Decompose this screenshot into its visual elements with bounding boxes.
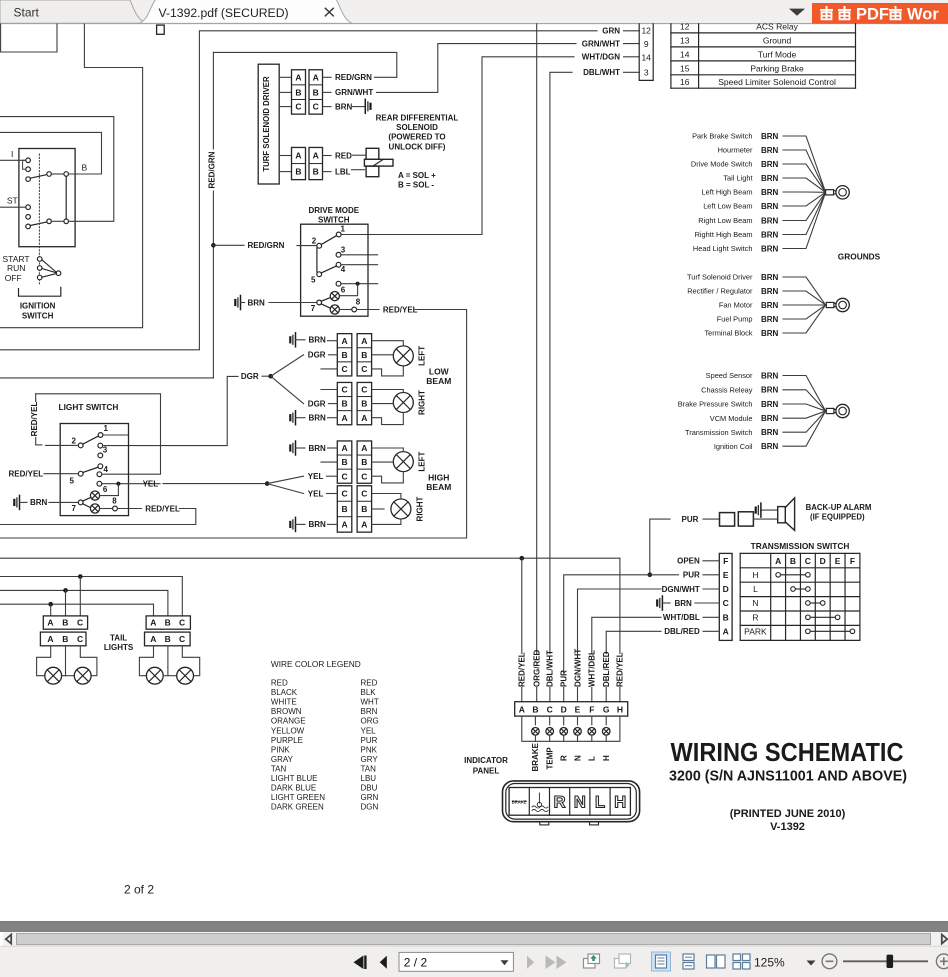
svg-text:Hourmeter: Hourmeter [718, 146, 753, 155]
svg-text:12: 12 [680, 22, 690, 32]
svg-text:RED/YEL: RED/YEL [9, 470, 44, 479]
svg-text:4: 4 [341, 265, 346, 274]
Foxit orange banner with CJK ad text [812, 3, 948, 24]
svg-text:PANEL: PANEL [473, 766, 500, 775]
svg-text:PNK: PNK [361, 745, 378, 754]
svg-text:BRN: BRN [761, 315, 779, 324]
svg-text:RED/GRN: RED/GRN [335, 73, 372, 82]
svg-text:Left Low Beam: Left Low Beam [703, 202, 752, 211]
svg-text:C: C [341, 471, 347, 481]
svg-text:SWITCH: SWITCH [318, 216, 350, 225]
svg-text:YEL: YEL [308, 489, 324, 498]
svg-text:BRN: BRN [761, 230, 779, 239]
wire PUR branch up to back-up alarm [650, 519, 670, 575]
svg-text:Turf Mode: Turf Mode [758, 50, 797, 60]
svg-text:Tail Light: Tail Light [723, 174, 752, 183]
svg-text:F: F [723, 556, 728, 566]
svg-text:DGR: DGR [308, 351, 326, 360]
svg-text:LEFT: LEFT [418, 451, 427, 471]
svg-text:N: N [574, 794, 586, 812]
lamp indicator E [574, 728, 582, 736]
toolbar next page button (disabled) [527, 956, 534, 969]
svg-text:15: 15 [680, 63, 690, 73]
lamp tail 1 [45, 667, 62, 684]
svg-text:Ground: Ground [763, 36, 792, 46]
wire YEL from pin 6 with junction [102, 483, 160, 485]
lamp indicator B [532, 728, 540, 736]
lamp tail 4 [177, 667, 194, 684]
label DBL/WHT riser [546, 654, 554, 687]
svg-text:GRY: GRY [361, 755, 379, 764]
svg-text:LEFT: LEFT [418, 346, 427, 366]
label DGN/WHT riser [573, 654, 581, 687]
tab bar background [0, 0, 948, 24]
lamp indicator C [546, 728, 554, 736]
indicator panel connector A-H [515, 702, 628, 716]
svg-text:WHITE: WHITE [271, 698, 297, 707]
svg-text:GRN: GRN [602, 27, 620, 36]
connector left low beam pair [337, 334, 352, 376]
wire stubs driver to connector rows A B C [279, 76, 291, 78]
svg-text:RED: RED [271, 679, 288, 688]
svg-text:A: A [341, 443, 347, 453]
svg-text:DARK GREEN: DARK GREEN [271, 803, 324, 812]
svg-text:RED/GRN: RED/GRN [248, 241, 285, 250]
label RED/YEL riser [616, 654, 624, 687]
svg-text:C: C [361, 385, 367, 395]
svg-text:PINK: PINK [271, 745, 290, 754]
svg-text:YEL: YEL [361, 726, 377, 735]
svg-text:2: 2 [312, 237, 317, 246]
svg-text:PDF: PDF [856, 5, 889, 23]
svg-text:B: B [295, 167, 301, 177]
svg-text:GRN/WHT: GRN/WHT [335, 88, 373, 97]
lamp in light switch (top) [90, 491, 99, 500]
wire RED/YEL from pin 8 down to left edge [357, 309, 379, 311]
svg-text:H: H [752, 570, 758, 580]
svg-text:B: B [361, 504, 367, 514]
svg-text:TEMP: TEMP [546, 747, 555, 770]
svg-text:DGN/WHT: DGN/WHT [662, 585, 700, 594]
svg-text:WHT: WHT [361, 698, 379, 707]
label ORG/RED riser [533, 654, 541, 687]
svg-text:ORG: ORG [361, 717, 379, 726]
svg-text:B: B [361, 399, 367, 409]
svg-text:Ignition Coil: Ignition Coil [714, 442, 753, 451]
wire BRN ground right-high A [295, 517, 297, 531]
svg-text:B: B [532, 704, 538, 714]
svg-text:DGN: DGN [361, 803, 379, 812]
svg-text:Start: Start [14, 6, 40, 20]
svg-text:3: 3 [644, 67, 649, 77]
svg-text:L: L [595, 794, 605, 812]
svg-text:A: A [361, 443, 367, 453]
svg-text:B: B [165, 618, 171, 628]
wire ST row to left edge [0, 117, 114, 222]
svg-text:PUR: PUR [361, 736, 378, 745]
wire lever bus [51, 173, 64, 175]
label DBL/RED riser [602, 654, 610, 687]
VCM connector table [670, 24, 672, 88]
svg-text:BRN: BRN [761, 371, 779, 380]
svg-text:IGNITION: IGNITION [20, 301, 56, 310]
wire BRN into pin 7 [240, 296, 242, 310]
svg-text:LOW: LOW [429, 367, 450, 377]
svg-text:C: C [295, 102, 301, 112]
svg-text:9: 9 [644, 39, 649, 49]
svg-text:D: D [723, 584, 729, 594]
connector tail light right pair [146, 616, 190, 629]
svg-text:Fuel Pump: Fuel Pump [717, 315, 753, 324]
svg-text:INDICATOR: INDICATOR [464, 756, 508, 765]
svg-text:A: A [150, 618, 156, 628]
svg-text:TRANSMISSION SWITCH: TRANSMISSION SWITCH [751, 541, 850, 551]
wire stub pin 6 with junction [341, 283, 378, 285]
svg-text:BRN: BRN [761, 386, 779, 395]
wire stub left-low C [321, 368, 337, 370]
toolbar continuous layout button [683, 954, 694, 961]
svg-text:A: A [47, 634, 53, 644]
svg-text:BRN: BRN [248, 298, 266, 307]
svg-text:LIGHTS: LIGHTS [104, 643, 134, 652]
wire riser pin A indicator connector [521, 558, 523, 702]
svg-text:G: G [603, 704, 610, 714]
svg-text:BRN: BRN [761, 400, 779, 409]
indicator panel feet [540, 822, 549, 825]
wire GRN/WHT B row to pin 9 [323, 91, 332, 93]
svg-text:DBU: DBU [361, 784, 378, 793]
svg-text:BRN: BRN [309, 520, 327, 529]
svg-text:125%: 125% [754, 955, 785, 969]
svg-text:12: 12 [641, 26, 651, 36]
lamp 2 in drive mode switch [330, 305, 339, 314]
rear differential solenoid L1 symbol [366, 148, 379, 159]
label RED/YEL riser [518, 654, 526, 687]
svg-text:1: 1 [341, 225, 346, 234]
wire DGR feed from light switch pin3 riser with fan [104, 376, 238, 445]
svg-text:BACK-UP ALARM: BACK-UP ALARM [806, 503, 872, 512]
svg-text:RED: RED [335, 151, 352, 160]
ignition key linkage dotted line [38, 154, 40, 285]
svg-text:Transmission Switch: Transmission Switch [685, 428, 753, 437]
svg-text:6: 6 [341, 286, 346, 295]
toolbar previous page button [380, 956, 387, 969]
svg-text:ST: ST [7, 196, 18, 206]
svg-text:BRN: BRN [361, 707, 378, 716]
svg-text:7: 7 [72, 504, 77, 513]
wire into ST contact [0, 206, 25, 208]
lamp indicator G [602, 728, 610, 736]
svg-text:3200 (S/N AJNS11001 AND ABOVE): 3200 (S/N AJNS11001 AND ABOVE) [669, 769, 907, 785]
svg-text:YEL: YEL [308, 472, 324, 481]
svg-text:GRN: GRN [361, 793, 379, 802]
svg-text:2 / 2: 2 / 2 [404, 956, 428, 970]
svg-text:WHT/DGN: WHT/DGN [582, 53, 620, 62]
svg-text:PUR: PUR [682, 515, 699, 524]
svg-text:C: C [361, 489, 367, 499]
svg-text:BRN: BRN [309, 444, 327, 453]
svg-text:RIGHT: RIGHT [418, 390, 427, 415]
lamp left low beam [393, 346, 413, 366]
svg-text:L: L [753, 584, 758, 594]
wire BRN ground into pin 7 [19, 495, 21, 509]
svg-text:RED/YEL: RED/YEL [30, 402, 39, 437]
svg-text:A: A [341, 520, 347, 530]
svg-text:A: A [361, 520, 367, 530]
svg-text:A: A [361, 336, 367, 346]
connector left high beam pair [337, 441, 352, 483]
svg-text:6: 6 [103, 485, 108, 494]
svg-text:DARK BLUE: DARK BLUE [271, 784, 316, 793]
svg-text:BRN: BRN [761, 202, 779, 211]
wire RED/YEL from pin 8 to left edge rail [117, 508, 141, 510]
ignition switch box [19, 149, 75, 247]
svg-text:TURF SOLENOID DRIVER: TURF SOLENOID DRIVER [262, 76, 271, 172]
wire loop cut at top-left [1, 24, 57, 52]
svg-text:BLK: BLK [361, 688, 377, 697]
svg-text:Head Light Switch: Head Light Switch [693, 244, 753, 253]
tab-list dropdown arrow [789, 9, 805, 16]
ignition switch bracket [19, 287, 61, 296]
ignition contacts [26, 158, 31, 163]
cell TEMP icon [532, 793, 548, 812]
svg-text:2: 2 [72, 437, 77, 446]
svg-text:A: A [775, 556, 781, 566]
svg-text:BRN: BRN [761, 428, 779, 437]
svg-text:1: 1 [104, 424, 109, 433]
svg-text:Rightt High Beam: Rightt High Beam [695, 230, 753, 239]
svg-text:C: C [341, 489, 347, 499]
svg-text:RIGHT: RIGHT [416, 496, 425, 521]
svg-text:Park Brake Switch: Park Brake Switch [692, 132, 752, 141]
svg-text:Right Low Beam: Right Low Beam [698, 216, 752, 225]
svg-text:I: I [11, 149, 13, 159]
svg-text:BRN: BRN [761, 146, 779, 155]
svg-text:B: B [313, 167, 319, 177]
svg-text:Terminal Block: Terminal Block [704, 329, 752, 338]
svg-text:BRN: BRN [761, 244, 779, 253]
svg-text:A: A [295, 72, 301, 82]
ignition levers [30, 175, 47, 179]
svg-text:E: E [723, 570, 729, 580]
svg-text:DBL/WHT: DBL/WHT [583, 68, 620, 77]
svg-text:DGN/WHT: DGN/WHT [573, 649, 582, 687]
svg-text:F: F [850, 556, 855, 566]
lamp indicator D [560, 728, 568, 736]
wire RED/GRN A row [323, 76, 332, 78]
svg-text:C: C [77, 634, 83, 644]
svg-text:A: A [313, 151, 319, 161]
svg-text:LBL: LBL [335, 167, 351, 176]
svg-text:C: C [341, 385, 347, 395]
toolbar zoom out button [822, 954, 837, 969]
wire DBL/WHT net down to indicator connector pin C [550, 72, 572, 701]
active document tab V-1392.pdf (SECURED) [139, 0, 352, 23]
svg-text:C: C [341, 364, 347, 374]
svg-text:C: C [805, 556, 811, 566]
svg-text:TAN: TAN [271, 764, 287, 773]
svg-text:C: C [313, 102, 319, 112]
svg-text:Fan Motor: Fan Motor [719, 301, 753, 310]
wire outer C-loop to left edge [0, 24, 143, 328]
svg-text:A: A [47, 618, 53, 628]
wire stub pin 3 [341, 254, 378, 256]
svg-text:BRAKE: BRAKE [531, 742, 540, 771]
svg-text:B: B [82, 163, 88, 173]
toolbar last page button (disabled) [546, 956, 556, 970]
svg-text:RED/YEL: RED/YEL [616, 652, 625, 687]
svg-text:D: D [561, 704, 567, 714]
connector right low beam pair [337, 382, 352, 424]
svg-text:PUR: PUR [683, 571, 700, 580]
wire RED/GRN top run to A-pin riser [213, 52, 396, 77]
svg-text:A: A [295, 151, 301, 161]
svg-text:B: B [62, 634, 68, 644]
svg-text:LBU: LBU [361, 774, 377, 783]
svg-text:BRN: BRN [761, 216, 779, 225]
svg-text:BRN: BRN [761, 287, 779, 296]
svg-text:BEAM: BEAM [426, 376, 451, 386]
wire RED/GRN into pin 2 [213, 244, 244, 246]
svg-text:R: R [560, 755, 569, 761]
connector J2 A/B pair [292, 147, 306, 179]
toolbar zoom slider [843, 960, 928, 962]
svg-text:Turf Solenoid Driver: Turf Solenoid Driver [687, 273, 753, 282]
svg-text:A: A [313, 72, 319, 82]
svg-text:ORANGE: ORANGE [271, 717, 306, 726]
svg-text:B: B [165, 634, 171, 644]
svg-text:BRN: BRN [30, 498, 48, 507]
svg-text:3: 3 [341, 245, 346, 254]
wire fan diagonals DGR [271, 355, 304, 376]
svg-text:OFF: OFF [5, 273, 22, 283]
wire RED row [323, 155, 332, 157]
svg-text:V-1392.pdf (SECURED): V-1392.pdf (SECURED) [159, 6, 289, 20]
junction RED/GRN to drive mode switch [211, 243, 216, 248]
svg-text:5: 5 [70, 476, 75, 485]
svg-text:TAN: TAN [361, 764, 377, 773]
indicator panel bezel [503, 781, 640, 822]
horizontal scrollbar [0, 932, 948, 946]
svg-text:H: H [617, 704, 623, 714]
wire stub left-high B [321, 461, 337, 463]
svg-text:RUN: RUN [7, 263, 25, 273]
svg-text:C: C [361, 364, 367, 374]
svg-text:DBL/RED: DBL/RED [602, 651, 611, 687]
svg-text:UNLOCK DIFF): UNLOCK DIFF) [389, 142, 446, 151]
svg-text:SWITCH: SWITCH [22, 312, 54, 321]
drive mode switch box S2 [301, 224, 368, 316]
lamp in drive mode switch [330, 292, 339, 301]
svg-text:B = SOL -: B = SOL - [398, 181, 434, 190]
svg-text:A: A [341, 336, 347, 346]
svg-text:Drive Mode Switch: Drive Mode Switch [691, 160, 753, 169]
svg-text:C: C [179, 634, 185, 644]
wire pin1 stub [103, 434, 129, 436]
svg-text:3: 3 [103, 445, 108, 454]
wire stub right-low C [321, 389, 337, 391]
svg-text:F: F [589, 704, 594, 714]
wire tail feed row B [0, 590, 168, 616]
svg-text:WIRE COLOR LEGEND: WIRE COLOR LEGEND [271, 659, 361, 669]
svg-text:C: C [179, 618, 185, 628]
svg-text:PURPLE: PURPLE [271, 736, 303, 745]
wire stubs driver to lower connector rows A B [279, 155, 291, 157]
svg-text:PUR: PUR [560, 670, 569, 687]
tail lamps left pair wiring [37, 646, 51, 676]
svg-text:B: B [361, 350, 367, 360]
svg-text:BEAM: BEAM [426, 482, 451, 492]
svg-text:B: B [341, 399, 347, 409]
svg-text:B: B [341, 350, 347, 360]
lamp right low beam [393, 393, 413, 413]
svg-text:B: B [341, 457, 347, 467]
svg-text:LIGHT GREEN: LIGHT GREEN [271, 793, 325, 802]
svg-text:GRN/WHT: GRN/WHT [582, 39, 620, 48]
wire WHT/DGN net to drive mode pin1 [341, 57, 574, 235]
svg-text:RED/YEL: RED/YEL [518, 652, 527, 687]
toolbar previous view button [584, 954, 600, 968]
svg-text:C: C [77, 618, 83, 628]
svg-text:R: R [554, 794, 566, 812]
svg-text:YELLOW: YELLOW [271, 726, 305, 735]
svg-text:B: B [341, 504, 347, 514]
wire ORG/RED vertical from page top to pin B [536, 24, 538, 702]
wire stub right-high B [372, 508, 384, 510]
svg-text:BROWN: BROWN [271, 707, 302, 716]
svg-text:BRN: BRN [761, 160, 779, 169]
wire BRN ground right-low A [295, 411, 297, 425]
wire BRN row C with ground [661, 596, 663, 610]
speaker symbol back-up alarm [778, 507, 786, 523]
svg-text:VCM Module: VCM Module [710, 414, 753, 423]
svg-text:BRN: BRN [335, 102, 353, 111]
svg-text:ACS Relay: ACS Relay [756, 22, 798, 32]
tail lamps right pair wiring [139, 646, 153, 676]
svg-text:BRN: BRN [309, 414, 327, 423]
svg-text:8: 8 [112, 496, 117, 505]
wires to speaker [753, 518, 777, 520]
svg-text:L: L [588, 756, 597, 761]
svg-text:A: A [723, 626, 729, 636]
svg-text:B: B [361, 457, 367, 467]
svg-text:DBL/RED: DBL/RED [664, 627, 700, 636]
toolbar [0, 946, 948, 977]
svg-text:BRN: BRN [761, 174, 779, 183]
svg-text:DRIVE MODE: DRIVE MODE [308, 206, 359, 215]
svg-text:HIGH: HIGH [428, 472, 449, 482]
svg-text:H: H [614, 794, 626, 812]
svg-text:D: D [820, 556, 826, 566]
svg-text:C: C [723, 598, 729, 608]
svg-text:BLACK: BLACK [271, 688, 298, 697]
svg-text:RED/YEL: RED/YEL [145, 504, 180, 513]
svg-text:4: 4 [104, 465, 109, 474]
svg-text:DBL/WHT: DBL/WHT [546, 650, 555, 687]
svg-text:REAR DIFFERENTIAL: REAR DIFFERENTIAL [376, 113, 459, 122]
svg-text:BRN: BRN [761, 301, 779, 310]
wire YEL long feed with fan [163, 483, 265, 485]
svg-text:Brake Pressure Switch: Brake Pressure Switch [678, 400, 753, 409]
connector tail light left pair [43, 616, 87, 629]
svg-text:A: A [519, 704, 525, 714]
svg-text:7: 7 [311, 304, 316, 313]
svg-text:Left High Beam: Left High Beam [702, 188, 753, 197]
Start tab [0, 0, 146, 23]
svg-text:C: C [361, 471, 367, 481]
svg-text:13: 13 [680, 36, 690, 46]
toolbar facing layout button [707, 955, 716, 968]
